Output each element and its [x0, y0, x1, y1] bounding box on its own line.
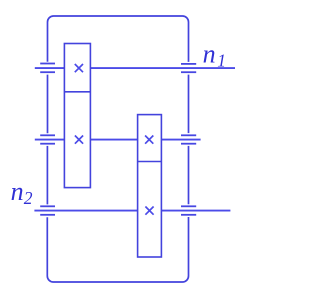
shaft 2 (intermediate shaft) — [35, 139, 201, 141]
label n1 — [203, 39, 226, 70]
bearing right shaft1 — [181, 64, 196, 72]
shaft 1 (input shaft, n1) — [35, 67, 235, 69]
bearing left shaft1 — [40, 64, 55, 73]
bearing right shaft2 — [181, 135, 196, 143]
svg-text:1: 1 — [217, 50, 226, 70]
bearing right shaft3 — [181, 206, 196, 215]
svg-text:n: n — [11, 177, 24, 206]
label n2 — [11, 177, 33, 208]
svg-text:n: n — [203, 39, 216, 68]
svg-text:2: 2 — [24, 188, 33, 208]
shaft 3 (output shaft, n2) — [34, 210, 230, 212]
cross mark gear1 on shaft1 — [75, 64, 83, 72]
cross mark gear2 on shaft2 — [75, 136, 83, 144]
gearbox housing — [47, 16, 188, 282]
gear block 2 (shaft2/shaft3 pair, right) — [138, 115, 162, 257]
bearing left shaft3 — [40, 206, 55, 215]
gear block 1 (shaft1/shaft2 pair, left) — [64, 44, 90, 188]
cross mark gear3 on shaft2 — [145, 136, 153, 144]
cross mark gear4 on shaft3 — [145, 207, 153, 215]
bearing left shaft2 — [40, 135, 55, 143]
